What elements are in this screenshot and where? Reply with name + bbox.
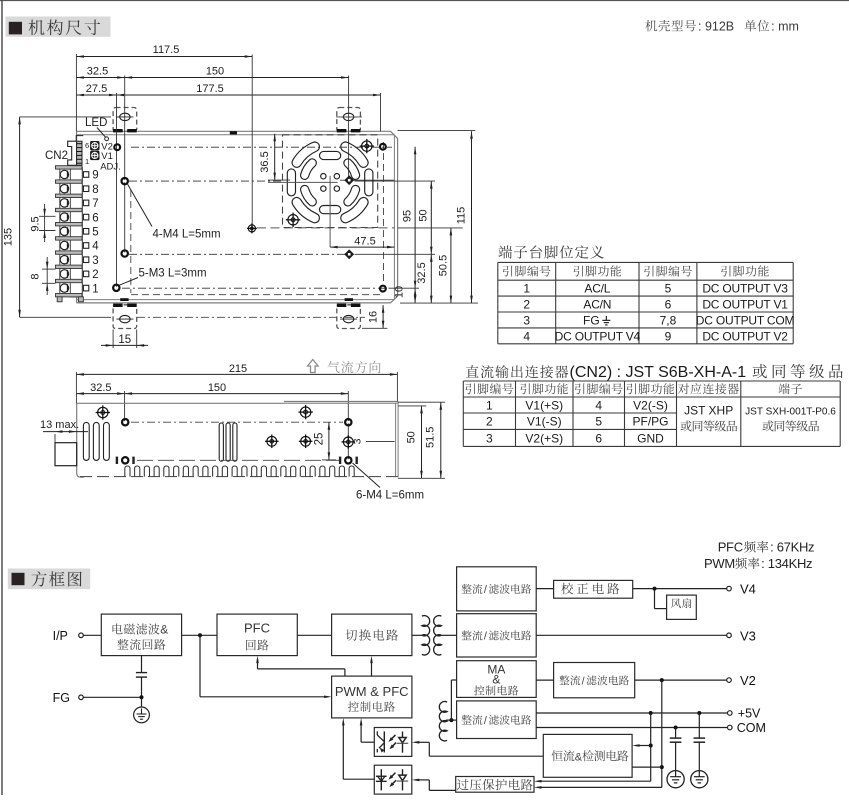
svg-text:1: 1 [85, 157, 89, 166]
svg-text:10: 10 [394, 286, 406, 298]
svg-text:&: & [160, 623, 168, 637]
svg-text:DC OUTPUT V4: DC OUTPUT V4 [555, 329, 641, 343]
svg-text:8: 8 [92, 184, 98, 196]
svg-text:LED: LED [85, 117, 107, 129]
svg-text:6: 6 [665, 297, 672, 311]
svg-text:V2: V2 [740, 673, 756, 688]
svg-text:V2(+S): V2(+S) [525, 431, 563, 445]
svg-text:1: 1 [486, 398, 493, 412]
svg-text:: 134KHz: : 134KHz [761, 556, 812, 571]
svg-text:32.5: 32.5 [416, 262, 428, 283]
svg-text:3: 3 [92, 255, 98, 267]
svg-text:&: & [492, 672, 500, 686]
svg-text:6: 6 [595, 431, 602, 445]
svg-text:/: / [484, 715, 487, 727]
svg-text:95: 95 [402, 210, 414, 222]
svg-text:/: / [582, 675, 585, 687]
svg-text:: 67KHz: : 67KHz [770, 540, 814, 555]
svg-text:AC/L: AC/L [584, 282, 610, 296]
svg-text:150: 150 [208, 382, 226, 394]
svg-text:6-M4 L=6mm: 6-M4 L=6mm [356, 490, 424, 502]
svg-text:115: 115 [456, 207, 468, 225]
svg-text:51.5: 51.5 [425, 427, 437, 448]
svg-text:FG: FG [53, 691, 70, 705]
svg-text:JST SXH-001T-P0.6: JST SXH-001T-P0.6 [745, 407, 836, 418]
svg-text:47.5: 47.5 [354, 236, 375, 248]
svg-text:AC/N: AC/N [583, 297, 611, 311]
svg-text:4: 4 [92, 241, 99, 253]
svg-text:JST XHP: JST XHP [684, 404, 733, 418]
svg-text:4: 4 [523, 329, 530, 343]
svg-text:DC OUTPUT V2: DC OUTPUT V2 [702, 329, 788, 343]
svg-text:6: 6 [85, 141, 89, 150]
svg-text:8: 8 [30, 273, 42, 279]
svg-text:/: / [484, 631, 487, 643]
svg-text:50: 50 [406, 431, 418, 443]
svg-text:50.5: 50.5 [437, 255, 449, 276]
svg-text:PWM: PWM [704, 556, 735, 571]
svg-text:2: 2 [92, 269, 98, 281]
svg-text:25: 25 [313, 433, 325, 446]
svg-text:I/P: I/P [53, 629, 68, 643]
svg-text:150: 150 [206, 66, 224, 78]
svg-text:DC OUTPUT V3: DC OUTPUT V3 [702, 282, 788, 296]
svg-text:1: 1 [92, 283, 98, 295]
svg-text:: mm: : mm [771, 20, 799, 34]
svg-text:5-M3 L=3mm: 5-M3 L=3mm [139, 268, 207, 280]
svg-text:16: 16 [368, 311, 380, 323]
svg-text:32.5: 32.5 [90, 382, 111, 394]
svg-text:V2(-S): V2(-S) [633, 398, 668, 412]
svg-text:(CN2) : JST S6B-XH-A-1: (CN2) : JST S6B-XH-A-1 [570, 364, 747, 381]
svg-text:DC OUTPUT COM: DC OUTPUT COM [696, 313, 795, 327]
svg-text:PWM & PFC: PWM & PFC [335, 684, 409, 699]
svg-text:27.5: 27.5 [86, 83, 107, 95]
svg-text:50: 50 [418, 209, 430, 221]
svg-text:V1: V1 [101, 151, 113, 162]
svg-text:32.5: 32.5 [87, 66, 108, 78]
svg-text:7: 7 [92, 198, 98, 210]
svg-text:4-M4 L=5mm: 4-M4 L=5mm [153, 229, 221, 241]
svg-text:V1(+S): V1(+S) [525, 398, 563, 412]
svg-text:: 912B: : 912B [698, 20, 734, 34]
svg-text:DC OUTPUT V1: DC OUTPUT V1 [702, 297, 788, 311]
svg-text:5: 5 [92, 227, 98, 239]
svg-text:PFC: PFC [718, 540, 743, 555]
svg-text:1: 1 [523, 282, 530, 296]
svg-text:3: 3 [523, 313, 530, 327]
svg-text:COM: COM [737, 721, 766, 735]
svg-text:4: 4 [595, 398, 602, 412]
svg-text:ADJ.: ADJ. [100, 161, 121, 172]
svg-text:177.5: 177.5 [196, 83, 224, 95]
svg-text:9: 9 [665, 329, 672, 343]
svg-text:3: 3 [486, 431, 493, 445]
svg-text:V4: V4 [740, 582, 756, 597]
svg-text:6: 6 [92, 212, 98, 224]
svg-text:FG: FG [583, 313, 600, 327]
svg-text:135: 135 [3, 228, 15, 246]
svg-text:PFC: PFC [244, 620, 270, 635]
svg-text:2: 2 [523, 297, 530, 311]
svg-text:V3: V3 [740, 628, 756, 643]
svg-text:215: 215 [229, 363, 247, 375]
svg-text:5: 5 [595, 415, 602, 429]
svg-text:36.5: 36.5 [259, 151, 271, 172]
svg-text:15: 15 [118, 334, 131, 346]
svg-text:V1(-S): V1(-S) [527, 415, 562, 429]
svg-text:117.5: 117.5 [153, 44, 180, 56]
svg-text:3: 3 [352, 438, 364, 444]
svg-text:13 max.: 13 max. [40, 419, 79, 431]
svg-text:9: 9 [92, 170, 98, 182]
svg-text:/: / [484, 584, 487, 596]
svg-text:+5V: +5V [738, 707, 761, 721]
svg-text:9.5: 9.5 [30, 216, 42, 231]
svg-text:&: & [575, 751, 583, 763]
svg-text:CN2: CN2 [45, 150, 68, 162]
svg-text:PF/PG: PF/PG [632, 415, 668, 429]
svg-text:5: 5 [665, 282, 672, 296]
svg-text:2: 2 [486, 415, 493, 429]
svg-text:GND: GND [637, 431, 664, 445]
svg-text:7,8: 7,8 [660, 313, 677, 327]
